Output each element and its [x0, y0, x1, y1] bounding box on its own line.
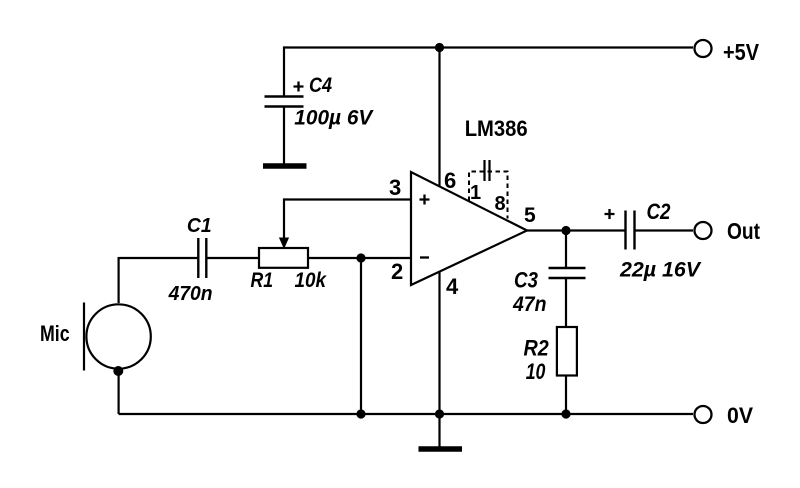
wire C1 to R1 — [206, 257, 259, 259]
svg-text:C3: C3 — [514, 268, 538, 293]
junction R2 rail — [561, 409, 570, 418]
terminal +5V — [695, 40, 712, 57]
terminal Out — [695, 222, 712, 239]
wire junction down to 0V rail — [360, 258, 362, 414]
wiper arrowhead — [279, 238, 289, 250]
svg-text:100µ 6V: 100µ 6V — [294, 107, 374, 130]
svg-text:C4: C4 — [309, 74, 332, 97]
wire pin 4 riser to ground — [438, 272, 440, 447]
svg-text:LM386: LM386 — [465, 116, 528, 141]
junction top rail / pin 6 — [435, 43, 444, 52]
capacitor C1 — [198, 238, 206, 278]
wire top rail from C4 to +5V terminal — [284, 46, 693, 48]
wire mic to C1 — [119, 257, 198, 259]
wire C4 top lead — [283, 46, 285, 96]
potentiometer R1 body — [259, 248, 308, 268]
svg-text:22µ 16V: 22µ 16V — [619, 258, 702, 282]
svg-text:R1: R1 — [251, 268, 274, 292]
resistor R2 body — [557, 327, 577, 376]
wire R1 to pin 2 — [308, 257, 411, 259]
microphone body — [86, 304, 150, 368]
svg-text:10: 10 — [526, 359, 546, 384]
dashed gain box pins 1-8 — [469, 172, 508, 219]
wire C4 bottom lead — [283, 107, 285, 165]
svg-text:6: 6 — [444, 168, 456, 193]
microphone element bar — [83, 303, 85, 371]
wire C3 to R2 — [565, 278, 567, 327]
svg-text:2: 2 — [391, 259, 403, 284]
junction pin4 rail — [435, 409, 444, 418]
terminal 0V — [695, 406, 712, 423]
wire pin 6 riser — [438, 48, 440, 188]
minus input mark — [420, 256, 429, 258]
svg-text:5: 5 — [524, 204, 536, 227]
svg-text:1: 1 — [470, 182, 481, 204]
plus input mark — [420, 195, 430, 205]
svg-text:Mic: Mic — [40, 321, 70, 346]
gain capacitor plates — [485, 160, 490, 181]
capacitor C2 — [626, 211, 635, 250]
C2 plus sign — [605, 209, 615, 219]
svg-text:+5V: +5V — [723, 39, 760, 65]
svg-text:10k: 10k — [295, 268, 327, 292]
wire R2 to rail — [565, 376, 567, 415]
wire wiper drop — [283, 198, 285, 239]
svg-text:3: 3 — [389, 175, 401, 200]
wire pin 3 — [284, 198, 411, 200]
svg-text:8: 8 — [495, 193, 506, 215]
svg-text:470n: 470n — [168, 283, 213, 305]
microphone riser — [117, 257, 119, 303]
junction on bottom rail below R1 — [356, 409, 365, 418]
junction mic bottom — [113, 366, 123, 376]
ground bar under C4 — [263, 163, 307, 169]
wire junction to C3 — [565, 231, 567, 268]
svg-text:4: 4 — [446, 274, 459, 299]
svg-text:C2: C2 — [647, 199, 672, 224]
svg-text:47n: 47n — [512, 293, 546, 316]
capacitor C3 — [549, 268, 586, 278]
svg-text:0V: 0V — [727, 403, 753, 428]
junction output / C3 — [561, 226, 570, 235]
bottom rail 0V — [119, 413, 693, 415]
svg-text:R2: R2 — [524, 336, 550, 361]
wire mic to bottom rail — [117, 371, 119, 414]
wire C2 to Out — [635, 229, 694, 231]
wire pin 5 output — [527, 229, 626, 231]
capacitor C4 — [265, 97, 304, 107]
svg-text:C1: C1 — [187, 215, 212, 237]
ground bar — [419, 446, 463, 452]
junction R1/pin2/ground branch — [356, 253, 365, 262]
svg-text:Out: Out — [727, 218, 760, 244]
C4 plus sign — [294, 82, 304, 92]
op-amp U1 LM386 triangle — [411, 172, 527, 285]
